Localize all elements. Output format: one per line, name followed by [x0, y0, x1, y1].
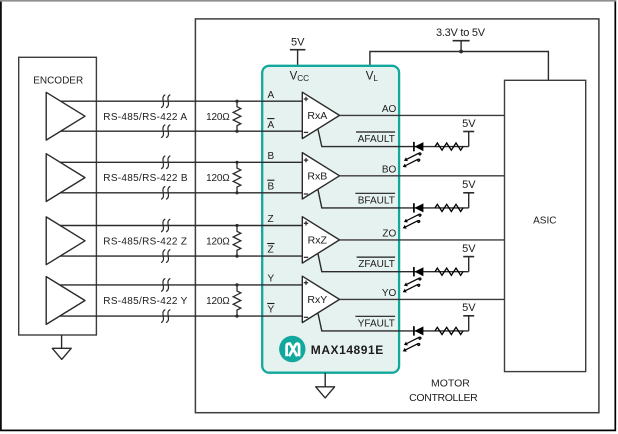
svg-text:B: B [268, 151, 275, 162]
svg-text:ASIC: ASIC [533, 216, 556, 227]
wire Z-bar (encoder to RxZ inverting input) [60, 255, 302, 257]
power bar 5V pull-up (channel Y) [463, 316, 474, 331]
resistor pull-up to 5V (channel A) [435, 143, 463, 150]
wire B (encoder to RxA input B) [60, 161, 302, 163]
svg-text:ZO: ZO [382, 229, 396, 240]
plus input marker RxY [304, 281, 308, 285]
power bar 3.3V to 5V [453, 41, 470, 52]
power bar 5V (VCC) [290, 50, 306, 66]
svg-text:B: B [268, 181, 275, 192]
receiver RxB (comparator triangle) [302, 153, 339, 199]
junction dots on 120ohm tap [235, 224, 238, 227]
LED fault indicator (channel A) [414, 142, 424, 151]
svg-text:RS-485/RS-422 A: RS-485/RS-422 A [103, 112, 187, 123]
receiver RxZ (comparator triangle) [302, 217, 339, 263]
svg-text:120Ω: 120Ω [206, 112, 230, 123]
svg-text:BFAULT: BFAULT [358, 195, 395, 206]
LED emission arrows (channel Z) [406, 278, 421, 291]
wire BFAULT from RxB to LED [318, 189, 469, 208]
svg-text:YO: YO [382, 288, 397, 299]
svg-text:YFAULT: YFAULT [358, 318, 395, 329]
svg-text:Y: Y [268, 305, 275, 316]
LED emission arrows (channel A) [406, 153, 421, 166]
resistor pull-up to 5V (channel Y) [435, 327, 463, 334]
svg-text:ENCODER: ENCODER [33, 76, 83, 87]
wire Y-bar (encoder to RxY inverting input) [60, 315, 302, 317]
line-break squiggle marks on wire B [162, 156, 170, 169]
LED emission arrows (channel Y) [406, 337, 421, 350]
ASIC box [505, 80, 586, 371]
power bar 5V pull-up (channel A) [463, 132, 474, 147]
minus input marker RxA [304, 131, 308, 133]
wire A-bar (encoder to RxA inverting input) [60, 130, 302, 132]
resistor pull-up to 5V (channel Z) [435, 268, 463, 275]
encoder driver buffer (channel Z) [46, 217, 85, 265]
resistor 120ohm termination (channel Z) [233, 226, 241, 257]
encoder driver buffer (channel A) [46, 92, 85, 140]
svg-text:AFAULT: AFAULT [358, 134, 395, 145]
line-break squiggle marks on wire Y [162, 279, 170, 292]
line-break squiggle marks on wire Z-bar [162, 250, 170, 263]
encoder box [19, 57, 97, 335]
line-break squiggle marks on wire A [162, 95, 170, 108]
motor controller boundary box [195, 19, 599, 413]
label MOTOR CONTROLLER [409, 378, 478, 405]
plus input marker RxZ [304, 221, 308, 225]
receiver RxY (comparator triangle) [302, 276, 339, 322]
svg-text:RxZ: RxZ [308, 235, 328, 247]
wire YO output to ASIC [340, 298, 505, 300]
svg-text:ZFAULT: ZFAULT [358, 259, 394, 270]
svg-text:120Ω: 120Ω [206, 236, 230, 247]
receiver RxA (comparator triangle) [302, 92, 339, 138]
svg-text:5V: 5V [462, 243, 476, 255]
svg-text:5V: 5V [291, 37, 305, 49]
svg-text:MAX14891E: MAX14891E [311, 343, 384, 357]
wire A (encoder to RxA input A) [60, 100, 302, 102]
wire AO output to ASIC [340, 114, 505, 116]
svg-text:Z: Z [268, 245, 274, 256]
encoder driver buffer (channel B) [46, 154, 85, 202]
svg-text:5V: 5V [462, 179, 476, 191]
svg-text:CONTROLLER: CONTROLLER [409, 392, 478, 404]
svg-text:120Ω: 120Ω [206, 296, 230, 307]
line-break squiggle marks on wire B-bar [162, 187, 170, 200]
wire YFAULT from RxY to LED [318, 313, 469, 331]
svg-text:RxB: RxB [307, 171, 327, 183]
svg-text:RS-485/RS-422 Z: RS-485/RS-422 Z [103, 236, 187, 247]
wire ZO output to ASIC [340, 239, 505, 241]
resistor 120ohm termination (channel A) [233, 101, 241, 131]
Maxim Integrated logo [279, 336, 305, 362]
junction dots on 120ohm tap [235, 161, 238, 164]
ground (MAX14891E) [316, 373, 335, 398]
line-break squiggle marks on wire Z [162, 219, 170, 232]
IC body MAX14891E (teal box) [262, 66, 399, 373]
encoder driver buffer (channel Y) [46, 277, 85, 325]
junction dots on 120ohm tap [235, 283, 238, 286]
wire VL supply rail to ASIC [370, 52, 549, 81]
LED fault indicator (channel Z) [414, 267, 424, 276]
minus input marker RxY [304, 316, 308, 318]
svg-text:5V: 5V [462, 118, 476, 130]
ground (encoder) [52, 335, 71, 359]
svg-text:MOTOR: MOTOR [431, 378, 470, 390]
LED fault indicator (channel B) [414, 203, 424, 212]
svg-text:RxA: RxA [307, 110, 327, 122]
plus input marker RxA [304, 97, 308, 101]
junction on supply rail [459, 50, 463, 54]
plus input marker RxB [304, 158, 308, 162]
resistor 120ohm termination (channel B) [233, 162, 241, 193]
svg-text:3.3V to 5V: 3.3V to 5V [436, 27, 486, 39]
svg-text:A: A [268, 120, 275, 131]
wire AFAULT from RxA to LED [318, 129, 469, 147]
svg-text:A: A [268, 90, 275, 101]
svg-text:AO: AO [382, 104, 397, 115]
junction dots on 120ohm tap [235, 100, 238, 103]
svg-text:RS-485/RS-422 Y: RS-485/RS-422 Y [103, 296, 187, 307]
wire B-bar (encoder to RxB inverting input) [60, 192, 302, 194]
wire BO output to ASIC [340, 175, 505, 177]
resistor 120ohm termination (channel Y) [233, 285, 241, 316]
svg-text:RxY: RxY [307, 294, 327, 306]
line-break squiggle marks on wire A-bar [162, 125, 170, 138]
svg-text:RS-485/RS-422 B: RS-485/RS-422 B [103, 173, 188, 184]
svg-text:BO: BO [382, 164, 397, 175]
svg-text:Y: Y [268, 274, 275, 285]
svg-text:120Ω: 120Ω [206, 173, 230, 184]
wire Z (encoder to RxA input Z) [60, 225, 302, 227]
LED emission arrows (channel B) [406, 214, 421, 227]
svg-text:5V: 5V [462, 302, 476, 314]
power bar 5V pull-up (channel Z) [463, 257, 474, 272]
minus input marker RxZ [304, 256, 308, 258]
line-break squiggle marks on wire Y-bar [162, 310, 170, 323]
resistor pull-up to 5V (channel B) [435, 204, 463, 211]
wire Y (encoder to RxA input Y) [60, 284, 302, 286]
power bar 5V pull-up (channel B) [463, 193, 474, 208]
LED fault indicator (channel Y) [414, 326, 424, 335]
minus input marker RxB [304, 193, 308, 195]
svg-text:Z: Z [268, 214, 274, 225]
wire ZFAULT from RxZ to LED [318, 253, 469, 271]
